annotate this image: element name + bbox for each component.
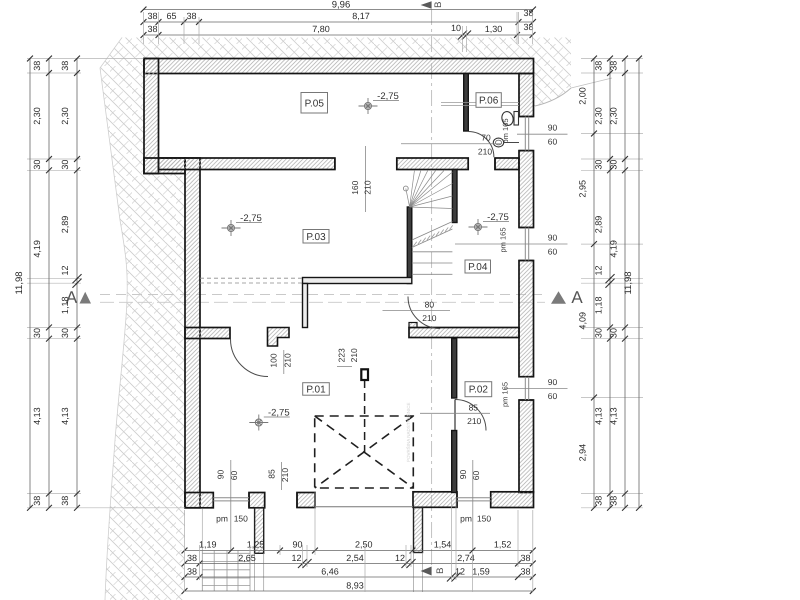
svg-text:60: 60 [548, 137, 558, 147]
svg-text:9,96: 9,96 [332, 0, 351, 11]
svg-text:150: 150 [234, 514, 248, 524]
svg-text:2,30: 2,30 [594, 107, 604, 125]
svg-text:38: 38 [32, 61, 42, 71]
svg-text:210: 210 [363, 180, 373, 194]
svg-text:38: 38 [609, 496, 619, 506]
svg-text:12: 12 [455, 567, 465, 577]
svg-text:2,65: 2,65 [238, 553, 256, 563]
svg-text:150: 150 [477, 514, 491, 524]
svg-text:pm: pm [460, 514, 472, 524]
svg-text:2,00: 2,00 [578, 87, 588, 105]
svg-text:38: 38 [523, 8, 533, 18]
svg-text:223: 223 [337, 348, 347, 362]
svg-text:12: 12 [594, 265, 604, 275]
svg-text:1,52: 1,52 [494, 540, 512, 550]
svg-text:210: 210 [422, 313, 436, 323]
svg-text:30: 30 [594, 160, 604, 170]
svg-text:38: 38 [594, 61, 604, 71]
svg-text:P.05: P.05 [305, 98, 325, 109]
svg-text:P.01: P.01 [306, 384, 326, 395]
svg-text:1,19: 1,19 [199, 540, 217, 550]
svg-text:38: 38 [594, 496, 604, 506]
svg-text:2,89: 2,89 [60, 216, 70, 234]
svg-text:POVRŠINA NADSTREŠNICE: POVRŠINA NADSTREŠNICE [406, 402, 411, 462]
svg-text:2,94: 2,94 [578, 444, 588, 462]
svg-text:90: 90 [458, 470, 468, 480]
svg-text:2,30: 2,30 [32, 107, 42, 125]
svg-text:38: 38 [186, 11, 196, 21]
svg-text:80: 80 [425, 300, 435, 310]
svg-text:P.02: P.02 [469, 385, 489, 396]
svg-text:210: 210 [283, 353, 293, 367]
svg-text:85: 85 [267, 469, 277, 479]
svg-text:4,19: 4,19 [609, 240, 619, 258]
svg-text:pm 165: pm 165 [501, 382, 510, 407]
svg-text:4,13: 4,13 [609, 407, 619, 425]
svg-text:210: 210 [478, 147, 492, 157]
svg-text:11,98: 11,98 [623, 271, 634, 294]
svg-text:38: 38 [520, 553, 530, 563]
svg-text:4,19: 4,19 [32, 240, 42, 258]
svg-text:P.03: P.03 [306, 232, 326, 243]
svg-text:4,13: 4,13 [60, 407, 70, 425]
svg-text:1,25: 1,25 [247, 540, 265, 550]
svg-text:30: 30 [32, 160, 42, 170]
svg-text:1,18: 1,18 [594, 297, 604, 315]
svg-text:60: 60 [548, 247, 558, 257]
svg-text:1,30: 1,30 [485, 24, 503, 34]
svg-text:B: B [435, 568, 446, 574]
svg-text:38: 38 [523, 22, 533, 32]
svg-text:pm 165: pm 165 [499, 227, 508, 252]
svg-text:90: 90 [548, 123, 558, 133]
svg-text:7,80: 7,80 [312, 24, 330, 34]
svg-text:P.06: P.06 [479, 96, 499, 107]
svg-text:10: 10 [451, 23, 461, 33]
svg-text:30: 30 [609, 160, 619, 170]
svg-text:160: 160 [350, 180, 360, 194]
svg-text:2,89: 2,89 [594, 216, 604, 234]
svg-text:8,17: 8,17 [352, 11, 370, 21]
svg-text:pm 165: pm 165 [501, 118, 510, 143]
svg-text:A: A [571, 288, 583, 307]
svg-text:12: 12 [60, 265, 70, 275]
svg-text:90: 90 [548, 233, 558, 243]
svg-text:12: 12 [291, 553, 301, 563]
svg-text:2,54: 2,54 [346, 553, 364, 563]
svg-text:4,13: 4,13 [32, 407, 42, 425]
svg-text:11,98: 11,98 [14, 271, 25, 294]
svg-text:P.04: P.04 [468, 262, 488, 273]
svg-text:38: 38 [147, 24, 157, 34]
svg-text:4,13: 4,13 [594, 407, 604, 425]
svg-text:4,09: 4,09 [578, 312, 588, 330]
svg-text:210: 210 [349, 348, 359, 362]
svg-text:2,74: 2,74 [457, 553, 475, 563]
svg-text:2,30: 2,30 [609, 107, 619, 125]
svg-text:38: 38 [147, 11, 157, 21]
svg-text:38: 38 [60, 496, 70, 506]
svg-text:60: 60 [548, 391, 558, 401]
svg-text:30: 30 [594, 328, 604, 338]
svg-text:30: 30 [60, 160, 70, 170]
svg-text:30: 30 [609, 328, 619, 338]
svg-text:12: 12 [395, 553, 405, 563]
svg-text:100: 100 [269, 353, 279, 367]
svg-text:2,95: 2,95 [578, 180, 588, 198]
svg-text:60: 60 [229, 471, 239, 481]
svg-text:30: 30 [32, 328, 42, 338]
svg-text:90: 90 [548, 377, 558, 387]
svg-text:38: 38 [609, 61, 619, 71]
svg-text:2,50: 2,50 [355, 540, 373, 550]
svg-text:65: 65 [166, 11, 176, 21]
svg-text:1,18: 1,18 [60, 297, 70, 315]
svg-text:60: 60 [471, 471, 481, 481]
svg-text:38: 38 [187, 553, 197, 563]
svg-text:85: 85 [469, 402, 479, 412]
svg-text:70: 70 [481, 133, 491, 143]
svg-text:38: 38 [520, 567, 530, 577]
svg-text:210: 210 [467, 416, 481, 426]
svg-text:30: 30 [60, 328, 70, 338]
svg-text:38: 38 [187, 567, 197, 577]
svg-text:1,54: 1,54 [434, 540, 452, 550]
svg-text:2,30: 2,30 [60, 107, 70, 125]
svg-text:1,59: 1,59 [472, 567, 490, 577]
svg-text:38: 38 [32, 496, 42, 506]
svg-text:210: 210 [280, 468, 290, 482]
svg-text:B: B [433, 2, 444, 8]
svg-text:90: 90 [216, 470, 226, 480]
svg-text:pm: pm [216, 514, 228, 524]
svg-text:38: 38 [60, 61, 70, 71]
svg-text:90: 90 [292, 540, 302, 550]
svg-text:8,93: 8,93 [346, 581, 364, 591]
svg-text:6,46: 6,46 [321, 567, 339, 577]
